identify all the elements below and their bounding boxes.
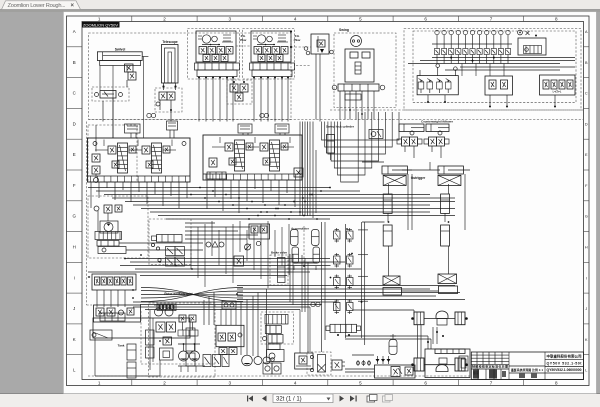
tank shutoff valve	[90, 330, 112, 340]
winch 2 manifold	[250, 63, 295, 70]
outrigger lock valve left	[383, 175, 406, 185]
tank valve bar	[100, 313, 125, 321]
svg-text:E: E	[73, 152, 76, 157]
svg-text:2: 2	[163, 380, 166, 385]
accumulator charge block	[518, 38, 546, 55]
feeds from bus to pump row	[240, 302, 242, 355]
svg-text:Swing: Swing	[339, 28, 349, 32]
secondary valve row 1	[166, 247, 176, 256]
pump pilot box	[98, 247, 126, 254]
svg-text:Outrigger: Outrigger	[411, 176, 426, 180]
svg-text:Swivel: Swivel	[115, 48, 126, 52]
pilot operated valve row	[203, 355, 211, 367]
svg-text:D: D	[585, 122, 588, 126]
inner drawing frame	[82, 22, 584, 380]
svg-text:制图校核审定标准化日期: 制图校核审定标准化日期	[472, 364, 508, 369]
solenoid valve pair row 4	[334, 303, 341, 311]
axle 2	[414, 358, 424, 371]
svg-text:24L: 24L	[241, 34, 246, 38]
counterweight valve 2	[429, 137, 437, 146]
svg-text:F: F	[73, 183, 76, 188]
svg-text:B: B	[585, 61, 588, 65]
auxiliary valve block between winches	[227, 80, 252, 104]
pilot bus horizontal wires	[88, 187, 330, 189]
pump circle	[100, 221, 118, 233]
secondary directional valve	[157, 235, 183, 243]
steering pump cluster	[94, 305, 141, 322]
svg-text:K: K	[585, 338, 588, 342]
block1 inner detail	[103, 140, 105, 147]
check valve trio lower	[357, 360, 359, 366]
mid dashed enclosure left	[88, 125, 137, 182]
svg-text:J: J	[73, 306, 75, 311]
return filter B	[146, 330, 155, 345]
title block middle	[509, 365, 545, 367]
lower connect verticals	[190, 230, 192, 269]
svg-text:H: H	[585, 246, 588, 250]
svg-text:8: 8	[555, 16, 558, 21]
svg-text:3: 3	[229, 16, 232, 21]
svg-text:4: 4	[294, 16, 297, 21]
check valve trio upper	[377, 356, 379, 364]
svg-text:Tank: Tank	[118, 344, 125, 348]
svg-text:Brake valve: Brake valve	[271, 251, 287, 255]
braid output bus	[237, 285, 455, 287]
pilot valve pair under swivel	[125, 64, 134, 72]
svg-text:K: K	[73, 337, 76, 342]
power unit terminal row	[157, 304, 176, 311]
connection dots scattered	[190, 194, 192, 196]
staircase wire bundle	[322, 112, 400, 140]
relief valves left column	[92, 154, 100, 162]
main control valve block 1	[88, 138, 191, 182]
tab bar	[0, 0, 600, 12]
brake valve column	[270, 255, 288, 285]
secondary valve row 2	[166, 257, 176, 266]
drop wires to transmission	[203, 300, 205, 325]
outer drawing frame	[67, 16, 590, 386]
wire swivel to control block	[99, 66, 101, 91]
swing group dashed box	[334, 33, 396, 108]
winch manifold dots	[198, 77, 200, 79]
swing motor	[351, 36, 362, 47]
gauge box	[160, 348, 174, 360]
manual pilot valve block	[417, 76, 458, 95]
svg-text:L=(7)=L: L=(7)=L	[553, 91, 562, 94]
solenoid valve row	[435, 30, 439, 34]
outrigger jack cylinder right upper	[441, 194, 450, 213]
outrigger beam cylinder left	[382, 166, 407, 174]
coupler circles above steering risers	[311, 302, 315, 306]
svg-text:1: 1	[98, 16, 101, 21]
nav button first-page	[247, 396, 253, 402]
svg-text:I: I	[74, 275, 75, 280]
svg-text:中联重科股份有限公司: 中联重科股份有限公司	[547, 354, 583, 359]
steering valve bar	[265, 315, 288, 325]
brake release valve lower-left	[92, 87, 129, 101]
power unit dashed box	[149, 303, 216, 377]
carriage split dash-dot boundary	[89, 119, 584, 121]
svg-text:G: G	[72, 214, 76, 219]
svg-text:J: J	[585, 307, 587, 311]
title block company name	[545, 358, 584, 360]
priority valve	[268, 335, 283, 344]
outrigger feed wires	[388, 184, 390, 194]
counterweight valve 1	[402, 137, 410, 146]
axle 2 frame	[425, 349, 470, 378]
svg-text:I: I	[586, 276, 587, 280]
vent symbol	[518, 30, 523, 35]
pump control valve	[97, 241, 119, 247]
drop wires block2	[206, 180, 208, 209]
wire braid crossover	[141, 288, 243, 302]
outrigger side feed lines	[407, 174, 409, 230]
lower horizontal bus wires	[133, 301, 336, 303]
unload valve	[234, 256, 244, 266]
winch 1 manifold	[195, 63, 240, 70]
svg-text:B: B	[73, 60, 76, 65]
brake air block	[375, 365, 416, 378]
counterweight cylinder 2	[426, 124, 449, 132]
svg-text:2: 2	[163, 16, 166, 21]
swing drop wires	[339, 91, 341, 120]
svg-text:32t (1 / 1): 32t (1 / 1)	[276, 397, 302, 403]
pilot caps block1	[125, 124, 141, 133]
pilot caps block2	[238, 124, 252, 133]
transmission cluster	[216, 325, 244, 346]
svg-text:C: C	[73, 91, 76, 96]
lower bus horizontals	[125, 258, 330, 260]
border zone column ticks and numbers	[132, 16, 524, 386]
block 2 relief and unload	[209, 158, 217, 167]
aux motor circles	[155, 308, 163, 316]
axle 1	[414, 312, 424, 325]
block2 base plate ticks	[203, 173, 302, 175]
inverted title bar	[82, 22, 120, 28]
charge pump circles	[242, 355, 253, 366]
power unit extra valves	[179, 315, 186, 322]
pump group dashed box	[88, 196, 148, 258]
svg-text:Zoomlion Lower Rough...: Zoomlion Lower Rough...	[8, 3, 66, 9]
bank outlet valve bar	[330, 324, 357, 332]
svg-text:24L: 24L	[295, 34, 300, 38]
counterweight cylinder 1	[399, 124, 424, 132]
pilot bus wires top-right	[460, 66, 575, 68]
svg-text:45bar: 45bar	[240, 38, 247, 42]
upper pump sub assembly	[104, 205, 112, 213]
svg-text:A: A	[585, 30, 588, 34]
secondary valve cluster dashed box	[149, 219, 191, 265]
svg-text:6: 6	[424, 380, 427, 385]
svg-text:7: 7	[490, 380, 493, 385]
winch motor cluster 2	[243, 29, 295, 80]
svg-text:7: 7	[490, 16, 493, 21]
tank boundary lines	[94, 338, 96, 376]
brake actuator dashed box	[307, 352, 331, 375]
steering unit dashed box	[261, 312, 294, 344]
swing control valve	[338, 84, 379, 91]
svg-text:6: 6	[424, 16, 427, 21]
tank return block	[93, 318, 190, 338]
winch motor cluster 1	[188, 29, 240, 80]
svg-text:ZOOMLION QY50V: ZOOMLION QY50V	[83, 22, 118, 27]
outrigger pad valve right	[438, 274, 457, 284]
document tab "Zoomlion Lower Rough..."	[2, 1, 81, 10]
svg-text:E: E	[585, 153, 588, 157]
svg-text:QY50V532.1.06000000: QY50V532.1.06000000	[547, 368, 582, 372]
svg-text:3: 3	[229, 380, 232, 385]
previous-view icon	[367, 395, 377, 403]
svg-text:5: 5	[359, 380, 362, 385]
return filter C	[186, 328, 195, 351]
svg-text:G: G	[585, 215, 588, 219]
solenoid valve bank rails	[321, 222, 323, 352]
holding valve telescope	[155, 88, 182, 112]
main control valve block 2	[203, 135, 302, 180]
nav button last-page	[350, 396, 357, 402]
svg-text:5: 5	[359, 16, 362, 21]
svg-text:45bar: 45bar	[294, 38, 301, 42]
drop wires block1	[90, 182, 92, 208]
svg-text:1: 1	[98, 380, 101, 385]
air filter capsule	[389, 340, 397, 355]
boundary dashed box upper-carriage	[89, 33, 292, 120]
main pump circles	[179, 351, 189, 361]
bus junction dots	[199, 187, 201, 189]
title block left grid	[471, 354, 509, 356]
svg-text:D: D	[73, 121, 76, 126]
svg-text:Counterweight lift/lower: Counterweight lift/lower	[421, 120, 454, 124]
winch 1 drop wires	[198, 77, 200, 122]
block1 base plate ticks	[88, 175, 190, 177]
long dashed return line	[88, 375, 470, 377]
svg-text:比例: 比例	[511, 369, 517, 373]
long vertical risers upper	[299, 122, 301, 217]
solenoid valve pair row 1	[334, 231, 341, 239]
brake valve cluster bottom	[295, 353, 313, 369]
outrigger jack cylinder left upper	[383, 194, 392, 213]
svg-text:H: H	[73, 245, 76, 250]
nav button next-page	[340, 396, 345, 402]
page number combo box	[273, 394, 333, 403]
pilot reducing block B	[540, 75, 576, 95]
title block table	[471, 352, 583, 380]
nav button prev-page	[262, 396, 267, 402]
gauge with arrow	[245, 244, 251, 250]
border zone row ticks and letters	[67, 47, 590, 355]
svg-text:Accumulator: Accumulator	[291, 227, 310, 231]
svg-text:QY50V 532.1-50t: QY50V 532.1-50t	[547, 362, 583, 366]
svg-text:C: C	[585, 92, 588, 96]
manifold drops	[96, 290, 98, 307]
pilot reducing block A	[485, 76, 513, 95]
oil cooler cluster	[249, 224, 270, 239]
shift valve	[332, 360, 342, 370]
pressure switch	[369, 130, 383, 139]
solenoid valve pair row 2	[334, 256, 341, 264]
svg-text:Telescope: Telescope	[162, 40, 178, 44]
free-fall selector valve	[311, 34, 329, 54]
swing brake block	[345, 49, 374, 82]
outrigger lock valve right	[438, 175, 461, 185]
return filter A	[127, 344, 136, 360]
quick coupler pair right	[260, 113, 264, 117]
transmission top circles	[222, 301, 236, 309]
outrigger pad valve left	[383, 276, 400, 285]
svg-text:8: 8	[555, 380, 558, 385]
steer pump squares	[263, 363, 272, 374]
pilot control dashed box	[404, 29, 581, 111]
svg-text:4: 4	[294, 380, 297, 385]
check valve manifold row	[95, 232, 122, 240]
solenoid valve pair row 3	[334, 278, 341, 286]
outrigger beam cylinder right	[438, 166, 463, 174]
svg-text:A: A	[73, 29, 76, 34]
svg-text:L: L	[585, 369, 587, 373]
aux check	[163, 337, 172, 345]
winch 2 drop wires	[253, 77, 255, 122]
dashed riser left boundary	[86, 122, 88, 306]
quick coupler pair left	[147, 113, 151, 117]
next-view icon (disabled)	[383, 395, 393, 403]
outrigger jack cylinder right lower	[441, 225, 450, 246]
svg-text:×: ×	[71, 3, 75, 9]
risers lower to steering	[301, 255, 303, 312]
block2 inner detail	[219, 137, 221, 143]
bank row taps	[358, 229, 368, 231]
aux valve pair	[156, 322, 165, 332]
filter symbols row	[206, 242, 211, 247]
steering feed block	[268, 344, 280, 350]
bottom right wires	[352, 309, 414, 311]
bottom toolbar	[0, 394, 600, 407]
outrigger jack cylinder left lower	[383, 225, 392, 246]
axle 2 transfer case	[435, 349, 465, 354]
free-fall valve drop wires	[315, 54, 317, 120]
accumulator capsules	[291, 230, 299, 246]
